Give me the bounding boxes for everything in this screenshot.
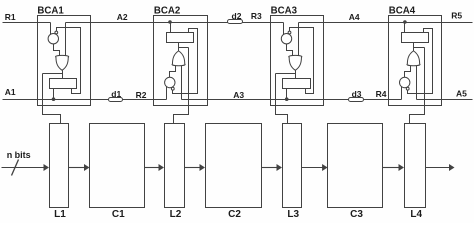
svg-text:R3: R3 (251, 11, 262, 21)
wire BCA2 register output to top bus (170, 23, 172, 33)
wire top bus segment R1 (left edge to BCA1) (3, 22, 51, 24)
block BCA2 outer box (154, 16, 208, 106)
wire BCA3 output stub to L-block (276, 73, 296, 75)
svg-text:L4: L4 (410, 209, 422, 220)
svg-text:d2: d2 (232, 11, 242, 21)
wire BCA4 input rise from bottom bus to circle (401, 87, 403, 100)
gate body BCA3 (pointing down) (289, 57, 301, 70)
block L2 (165, 124, 185, 208)
arrow C1 to L2 (145, 167, 159, 169)
wire BCA1 circle output to gate left input (54, 44, 60, 56)
junction dot BCA1 on bottom bus (52, 97, 56, 101)
svg-text:BCA4: BCA4 (389, 5, 416, 16)
wire BCA1 top bus branch to gate right input (65, 23, 67, 56)
junction dot BCA4 on top bus (403, 20, 407, 24)
wire BCA3 feedback loop (290, 28, 314, 94)
wire BCA1 output stub to L-block (43, 73, 63, 75)
svg-text:C1: C1 (112, 209, 125, 220)
junction dot BCA2 on top bus (168, 20, 172, 24)
arrow C2 to L3 (262, 167, 277, 169)
block L1 (50, 124, 69, 208)
svg-text:BCA3: BCA3 (271, 5, 298, 16)
block BCA3 outer box (271, 16, 324, 106)
delay element d1 on bottom bus (109, 98, 123, 102)
register BCA1 (50, 79, 77, 89)
bus-width slash on input wire (12, 160, 19, 176)
wire BCA3 register output to bottom bus (286, 89, 288, 100)
block L3 (283, 124, 302, 208)
svg-text:R5: R5 (451, 10, 462, 20)
wire bottom bus segment A3/d3/R4 (BCA2 to BCA4) (182, 99, 402, 101)
wire BCA1 input drop from top bus to circle (50, 23, 52, 35)
delay element d3 on bottom bus (349, 98, 364, 102)
gate cap BCA3 (289, 55, 302, 58)
wire BCA2 input rise from bottom bus to circle (166, 87, 168, 100)
bubble on BCA1 hub (55, 31, 58, 34)
delay element d2 on top bus (228, 20, 243, 24)
block C1 (90, 124, 145, 208)
wire BCA4 feed down to L-block (410, 48, 425, 124)
wire bottom bus segment A1/d1/R2 (left edge to BCA2) (3, 99, 167, 101)
svg-text:A4: A4 (349, 12, 360, 22)
arrow C3 to L4 (383, 167, 399, 169)
svg-text:BCA2: BCA2 (154, 5, 180, 16)
wire top bus segment A4/R5 (BCA3 to right edge) (299, 22, 473, 24)
gate cap BCA2 (172, 63, 185, 66)
arrow L2 to C2 (185, 167, 200, 169)
wire BCA2 gate input from register (178, 43, 180, 52)
svg-text:d3: d3 (352, 89, 362, 99)
svg-text:A3: A3 (233, 90, 244, 100)
wire top bus segment A2/d2/R3 (BCA1 to BCA3) (66, 22, 284, 24)
wire BCA1 gate output to register (62, 71, 64, 79)
wire BCA3 top bus branch to gate right input (298, 23, 300, 56)
circle hub BCA1 (48, 34, 58, 44)
wire input arrow (n bits) into L1 (2, 167, 45, 169)
wire BCA3 input drop from top bus to circle (283, 23, 285, 35)
svg-text:A5: A5 (456, 88, 467, 98)
block C2 (206, 124, 262, 208)
svg-text:R2: R2 (136, 90, 147, 100)
register BCA4 (402, 33, 429, 43)
wire BCA2 feedback loop (173, 29, 198, 94)
circle hub BCA4 (400, 77, 410, 87)
circle hub BCA2 (165, 77, 175, 87)
circle hub BCA3 (281, 34, 291, 44)
arrow L1 to C1 (69, 167, 85, 169)
svg-text:L2: L2 (170, 209, 182, 220)
bubble on BCA3 hub (288, 31, 291, 34)
wire BCA4 output stub to L-block (414, 47, 425, 49)
bubble on BCA4 hub (406, 87, 409, 90)
wire BCA3 gate output to register (295, 71, 297, 79)
svg-text:d1: d1 (111, 89, 121, 99)
svg-text:L3: L3 (287, 209, 299, 220)
wire BCA2 gate right output to bottom bus (181, 66, 183, 100)
arrow L3 to C3 (302, 167, 323, 169)
wire BCA1 feedback loop (57, 28, 81, 94)
svg-text:L1: L1 (54, 209, 66, 220)
wire BCA4 gate input from register (413, 43, 415, 52)
gate body BCA4 (pointing up) (407, 51, 419, 64)
svg-text:A2: A2 (117, 12, 128, 22)
wire BCA3 circle output to gate left input (287, 44, 293, 56)
register BCA3 (283, 79, 311, 89)
gate cap BCA1 (56, 55, 69, 58)
wire BCA1 feed down to L-block (43, 74, 61, 124)
junction dot BCA3 on bottom bus (285, 97, 289, 101)
wire BCA2 feed down to L-block (174, 48, 189, 124)
bubble on BCA2 hub (171, 87, 174, 90)
wire BCA4 register output to top bus (404, 23, 406, 33)
output arrow from L4 (426, 167, 450, 169)
gate cap BCA4 (407, 63, 420, 66)
gate body BCA1 (pointing down) (56, 57, 68, 70)
block BCA1 outer box (38, 16, 91, 106)
wire BCA1 register output to bottom bus (53, 89, 55, 100)
wire bottom bus segment A5 (BCA4 to right edge) (417, 99, 473, 101)
block C3 (328, 124, 383, 208)
svg-text:BCA1: BCA1 (37, 5, 64, 16)
wire BCA4 circle output to gate left input (405, 66, 411, 78)
wire BCA4 gate right output to bottom bus (416, 66, 418, 100)
block BCA4 outer box (389, 16, 442, 106)
register BCA2 (167, 33, 194, 43)
svg-text:R1: R1 (5, 12, 16, 22)
svg-text:C3: C3 (350, 209, 363, 220)
wire BCA3 feed down to L-block (276, 74, 288, 124)
svg-text:A1: A1 (5, 87, 16, 97)
wire BCA2 output stub to L-block (179, 47, 189, 49)
wire BCA4 feedback loop (408, 29, 433, 94)
wire BCA2 circle output to gate left input (170, 66, 176, 78)
gate body BCA2 (pointing up) (172, 51, 184, 64)
svg-text:n bits: n bits (7, 150, 31, 160)
svg-text:C2: C2 (228, 209, 241, 220)
block L4 (405, 124, 426, 208)
svg-text:R4: R4 (376, 89, 387, 99)
